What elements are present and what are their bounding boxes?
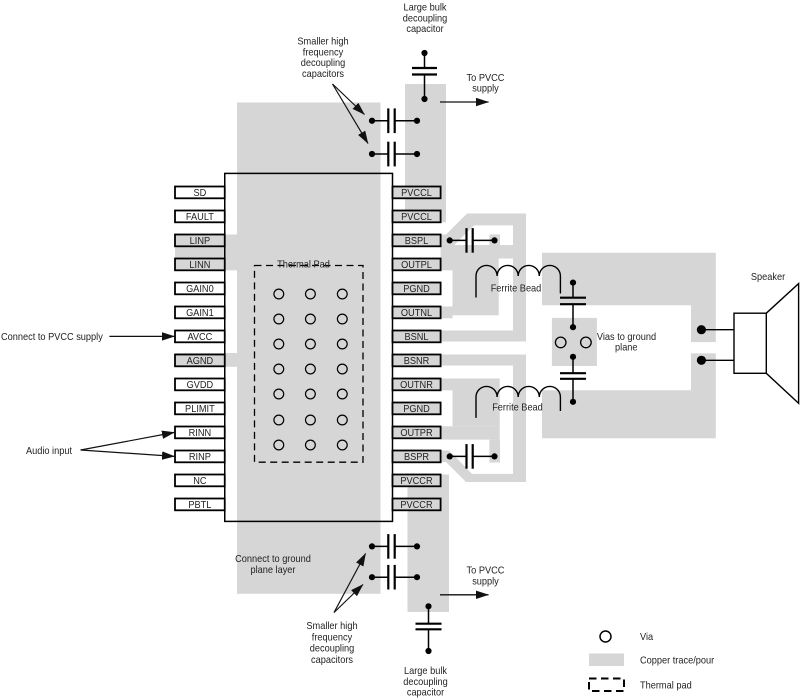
- pin LINN (left 4): [175, 259, 225, 272]
- arrow to C7: [334, 585, 363, 613]
- capacitor C3 large bulk decoupling (top): [412, 53, 437, 99]
- arrow to RINP pin: [81, 450, 175, 456]
- copper pour: BSPR cap stub: [489, 440, 500, 463]
- svg-text:BSNR: BSNR: [404, 356, 430, 367]
- pin GAIN0 (left 5): [175, 283, 225, 296]
- copper pour: speaker minus net (bottom C shape): [542, 353, 716, 438]
- pin PGND (right 10): [393, 403, 441, 416]
- svg-text:NC: NC: [193, 476, 207, 487]
- copper pour: OUTPL top band: [441, 245, 526, 259]
- svg-text:PVCCL: PVCCL: [401, 188, 432, 199]
- pin RINN (left 11): [175, 427, 225, 440]
- pin PVCCL (right 1): [393, 187, 441, 200]
- pin PGND (right 5): [393, 283, 441, 296]
- pin OUTNL (right 6): [393, 307, 441, 320]
- svg-text:supply: supply: [472, 84, 499, 95]
- svg-text:Ferrite Bead: Ferrite Bead: [492, 402, 543, 413]
- copper pour: ground plane under IC: [237, 103, 381, 594]
- arrow to C1: [333, 84, 365, 115]
- copper pour: OUTNR tab: [441, 379, 453, 391]
- svg-text:PVCCL: PVCCL: [401, 212, 432, 223]
- pin GVDD (left 9): [175, 379, 225, 392]
- svg-text:Smaller high: Smaller high: [306, 621, 357, 632]
- svg-text:plane: plane: [615, 343, 638, 354]
- svg-text:OUTNR: OUTNR: [400, 380, 433, 391]
- svg-text:SD: SD: [194, 188, 207, 199]
- svg-text:decoupling: decoupling: [403, 677, 448, 688]
- pin GAIN1 (left 6): [175, 307, 225, 320]
- svg-text:LINP: LINP: [190, 236, 211, 247]
- svg-text:Audio input: Audio input: [26, 446, 72, 457]
- copper pour: vias-to-ground square: [552, 318, 597, 366]
- svg-text:RINN: RINN: [189, 428, 212, 439]
- svg-text:PBTL: PBTL: [188, 500, 211, 511]
- copper pour: OUTNL tab: [441, 307, 453, 319]
- pin PVCCR (right 14): [393, 499, 441, 512]
- svg-text:Connect to ground: Connect to ground: [235, 554, 311, 565]
- svg-text:OUTPL: OUTPL: [401, 260, 432, 271]
- pin BSPL (right 3): [393, 235, 441, 248]
- capacitor C8 large bulk decoupling (bottom): [416, 606, 442, 651]
- svg-text:frequency: frequency: [303, 47, 344, 58]
- copper pour: AGND tab: [175, 353, 237, 367]
- pin OUTPL (right 4): [393, 259, 441, 272]
- svg-text:AVCC: AVCC: [187, 332, 212, 343]
- ferrite bead FB1 (left channel): [476, 265, 560, 297]
- junction dots C5: [447, 453, 453, 459]
- thermal pad via array (21 vias): [274, 289, 347, 450]
- svg-text:FAULT: FAULT: [186, 212, 215, 223]
- svg-text:Smaller high: Smaller high: [297, 37, 348, 48]
- svg-text:PGND: PGND: [403, 404, 430, 415]
- pin BSPR (right 12): [393, 451, 441, 464]
- junction dots C10: [570, 354, 576, 360]
- copper pour: OUTPL/OUTNL node block: [453, 259, 499, 316]
- junction dots C7: [369, 574, 375, 580]
- svg-text:RINP: RINP: [189, 452, 211, 463]
- svg-text:Large bulk: Large bulk: [404, 666, 448, 677]
- pin PLIMIT (left 10): [175, 403, 225, 416]
- legend copper swatch: [589, 654, 624, 667]
- svg-text:To PVCC: To PVCC: [467, 73, 505, 84]
- svg-text:capacitors: capacitors: [311, 655, 353, 666]
- svg-text:supply: supply: [472, 576, 499, 587]
- svg-text:Large bulk: Large bulk: [404, 3, 448, 14]
- svg-text:decoupling: decoupling: [301, 58, 346, 69]
- pin PVCCR (right 13): [393, 475, 441, 488]
- speaker terminal dot -: [697, 356, 706, 365]
- capacitor C6 smaller HF decoupling (bottom pair, upper): [372, 534, 417, 559]
- arrow: to PVCC supply (bottom): [440, 594, 489, 596]
- svg-text:BSPR: BSPR: [404, 452, 430, 463]
- svg-text:PVCCR: PVCCR: [400, 500, 433, 511]
- capacitor C10 output filter (bottom, to via square): [560, 357, 586, 402]
- svg-text:BSNL: BSNL: [405, 332, 429, 343]
- capacitor C1 smaller HF decoupling (top pair, upper): [372, 108, 417, 133]
- junction dots C1: [369, 118, 375, 124]
- via dots C3: [421, 50, 427, 56]
- svg-text:Connect to PVCC supply: Connect to PVCC supply: [1, 332, 104, 343]
- capacitor C2 smaller HF decoupling (top pair, lower): [372, 142, 417, 167]
- pin SD (left 1): [175, 187, 225, 200]
- pin PBTL (left 14): [175, 499, 225, 512]
- svg-text:LINN: LINN: [189, 260, 210, 271]
- svg-text:Vias to ground: Vias to ground: [597, 332, 656, 343]
- copper pour: speaker plus net (top C shape): [542, 253, 716, 342]
- pin FAULT (left 2): [175, 211, 225, 224]
- svg-text:PLIMIT: PLIMIT: [185, 404, 215, 415]
- copper pour: LINP/LINN input trace: [175, 235, 237, 271]
- legend via symbol: [600, 631, 611, 642]
- IC U1 body: [225, 173, 393, 521]
- arrow: to PVCC supply (top): [440, 101, 489, 103]
- copper pour: BSNL band: [441, 331, 526, 342]
- capacitor C9 output filter (top, to via square): [560, 283, 586, 328]
- pin OUTPR (right 11): [393, 427, 441, 440]
- speaker terminal dot +: [697, 325, 706, 334]
- copper pour: PVCC bottom strip: [408, 475, 450, 613]
- ferrite bead FB2 (right channel): [476, 386, 560, 417]
- pin AGND (left 8): [175, 355, 225, 368]
- speaker wire -: [701, 359, 734, 361]
- thermal pad (dashed): [255, 266, 364, 463]
- pin PVCCL (right 2): [393, 211, 441, 224]
- junction dots C4: [447, 237, 453, 243]
- copper pour: BSPL right leg down to BSNL: [513, 214, 526, 342]
- copper pour: OUTPL tab: [441, 259, 453, 271]
- svg-text:decoupling: decoupling: [403, 13, 448, 24]
- pin BSNL (right 7): [393, 331, 441, 344]
- copper pour: BSNR/BSPR right leg: [513, 355, 526, 483]
- via V2 on ground square: [581, 337, 592, 348]
- svg-text:GAIN0: GAIN0: [186, 284, 214, 295]
- arrow to C2: [333, 84, 369, 144]
- junction dots C9: [570, 280, 576, 286]
- svg-text:capacitors: capacitors: [302, 69, 344, 80]
- svg-text:Ferrite Bead: Ferrite Bead: [491, 283, 542, 294]
- svg-text:BSPL: BSPL: [405, 236, 429, 247]
- pin NC (left 13): [175, 475, 225, 488]
- copper pour: OUTNR/OUTPR node block: [453, 379, 500, 427]
- svg-text:capacitor: capacitor: [407, 688, 445, 699]
- capacitor C4 bootstrap BSPL: [450, 228, 495, 253]
- pin RINP (left 12): [175, 451, 225, 464]
- copper pour: OUTPR band: [441, 426, 500, 439]
- svg-text:AGND: AGND: [187, 356, 214, 367]
- svg-text:frequency: frequency: [312, 633, 353, 644]
- junction dots C6: [369, 543, 375, 549]
- svg-text:Speaker: Speaker: [751, 272, 786, 283]
- capacitor C7 smaller HF decoupling (bottom pair, lower): [372, 565, 417, 590]
- arrow to RINN pin: [81, 432, 175, 450]
- svg-text:GVDD: GVDD: [187, 380, 214, 391]
- svg-text:Thermal pad: Thermal pad: [640, 681, 692, 692]
- pin OUTNR (right 9): [393, 379, 441, 392]
- legend thermal pad swatch: [589, 679, 624, 692]
- svg-text:PVCCR: PVCCR: [400, 476, 433, 487]
- copper pour: PVCC top strip: [405, 84, 446, 222]
- svg-text:OUTPR: OUTPR: [400, 428, 433, 439]
- pin BSNR (right 8): [393, 355, 441, 368]
- via dots C8: [425, 603, 431, 609]
- svg-text:GAIN1: GAIN1: [186, 308, 214, 319]
- svg-text:To PVCC: To PVCC: [467, 566, 505, 577]
- copper pour: BSNR band: [441, 355, 526, 366]
- svg-text:Via: Via: [640, 632, 653, 643]
- svg-text:PGND: PGND: [403, 284, 430, 295]
- copper pour: BSPL hook (tab+diagonal+top band): [441, 214, 526, 247]
- arrow to C6: [334, 554, 366, 613]
- junction dots C2: [369, 151, 375, 157]
- copper pour: BSPL cap stub: [489, 234, 500, 246]
- speaker wire +: [701, 329, 734, 331]
- svg-text:capacitor: capacitor: [406, 24, 444, 35]
- svg-text:Copper trace/pour: Copper trace/pour: [640, 656, 715, 667]
- svg-text:decoupling: decoupling: [310, 644, 355, 655]
- via V1 on ground square: [555, 337, 566, 348]
- svg-text:Thermal Pad: Thermal Pad: [277, 259, 330, 270]
- speaker LS1: [734, 284, 799, 404]
- arrow to AVCC pin: [109, 335, 174, 337]
- pin LINP (left 3): [175, 235, 225, 248]
- capacitor C5 bootstrap BSPR: [450, 444, 495, 469]
- svg-text:plane layer: plane layer: [251, 565, 296, 576]
- pin AVCC (left 7): [175, 331, 225, 344]
- svg-text:OUTNL: OUTNL: [401, 308, 432, 319]
- copper pour: BSPR hook (tab+diagonal+bottom band): [441, 451, 526, 483]
